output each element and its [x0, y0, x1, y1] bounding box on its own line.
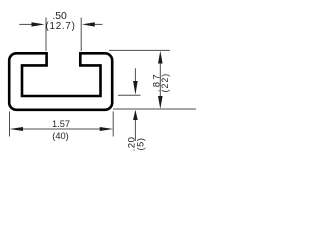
dim .50 extension line right [80, 18, 82, 52]
dim .87 line [159, 62, 161, 98]
dim .50 left arrow [19, 22, 44, 26]
svg-text:.50: .50 [52, 11, 67, 22]
dim 1.57 right arrowhead [100, 127, 114, 131]
dim .20 upper arrow (stem above, tip down on inner-bottom ext) [133, 68, 138, 94]
dim .87 bottom arrowhead [158, 96, 163, 109]
svg-text:1.57: 1.57 [52, 119, 70, 129]
svg-text:(12.7): (12.7) [46, 21, 76, 32]
dim 1.57 extension line left [9, 112, 11, 137]
dim .20 lower arrow (stem below, tip up on outer-bottom ext) [133, 110, 138, 141]
svg-text:(5): (5) [136, 137, 146, 150]
dim .87 extension line top [109, 49, 170, 51]
dim .87 top arrowhead [158, 51, 163, 64]
svg-text:(40): (40) [52, 131, 69, 141]
extension line inner bottom [118, 94, 141, 96]
dim 1.57 line [22, 128, 100, 130]
channel profile outline [9, 53, 112, 110]
dim .50 extension line left [45, 18, 47, 52]
dim 1.57 left arrowhead [10, 127, 24, 131]
dim 1.57 extension line right [112, 112, 114, 137]
shared extension line outer bottom [113, 108, 196, 110]
svg-text:(22): (22) [160, 73, 170, 93]
dim .50 right arrow [82, 22, 103, 26]
